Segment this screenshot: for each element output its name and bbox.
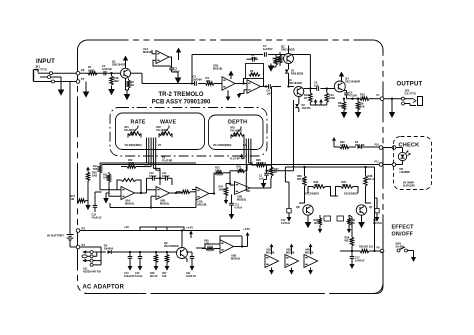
wire supply to U4 xyxy=(196,247,205,249)
wire U2A feedback loop xyxy=(117,180,121,190)
svg-text:1S2473: 1S2473 xyxy=(302,106,311,110)
svg-text:1K: 1K xyxy=(131,83,134,87)
wire U1B output xyxy=(235,83,247,85)
PCB assembly boundary (dash-dot border) xyxy=(78,40,384,294)
svg-text:47u/6.3V: 47u/6.3V xyxy=(92,216,102,219)
svg-text:P11: P11 xyxy=(375,161,380,164)
wire input sleeve to P7 xyxy=(55,81,77,83)
svg-text:ON/OFF: ON/OFF xyxy=(392,232,414,238)
node P3 pad xyxy=(76,229,80,233)
svg-text:4.7K: 4.7K xyxy=(204,242,209,245)
svg-text:100K: 100K xyxy=(338,104,344,108)
svg-text:WZ-4702: WZ-4702 xyxy=(256,162,267,165)
wire x293 vertical xyxy=(293,100,295,167)
capacitor C9 47uF16V xyxy=(344,92,349,94)
node check pad 4 xyxy=(392,163,396,167)
resistor R40 xyxy=(348,215,350,218)
svg-text:100K: 100K xyxy=(219,188,225,191)
svg-text:WZ-33: WZ-33 xyxy=(368,177,376,181)
resistor R49 1M xyxy=(111,73,113,76)
resistor R27 vca xyxy=(271,165,273,168)
diode D1 RD9.8M xyxy=(285,70,289,74)
svg-text:FLAT-8P: FLAT-8P xyxy=(230,158,240,161)
svg-text:10K1: 10K1 xyxy=(88,68,95,72)
svg-text:M5218L: M5218L xyxy=(125,201,135,205)
resistor R25b xyxy=(238,169,245,172)
capacitor C12 xyxy=(288,182,290,209)
wire pad2 to LED xyxy=(396,147,403,149)
resistor R52 xyxy=(275,55,277,57)
wire ff to effect xyxy=(351,217,353,228)
capacitor C7 1uF50V xyxy=(264,52,266,57)
wire U1A feedback xyxy=(169,57,172,66)
resistor R44 xyxy=(309,93,312,103)
svg-text:Q7: Q7 xyxy=(369,205,373,209)
wire C10 C11 bus xyxy=(146,178,148,193)
wire R10 to pad xyxy=(369,98,380,100)
node output pad xyxy=(380,97,384,101)
svg-text:100K: 100K xyxy=(314,183,320,187)
svg-text:EFFECT: EFFECT xyxy=(392,225,415,231)
wire output ground branch xyxy=(391,99,393,112)
wire Q2 source xyxy=(288,64,290,70)
wire Q1 drain up xyxy=(125,62,127,68)
svg-text:+4.5V: +4.5V xyxy=(186,226,193,230)
wire D1 to Q3 xyxy=(288,73,290,86)
jumper pads ff xyxy=(324,216,331,221)
svg-text:WZ-10: WZ-10 xyxy=(345,238,353,242)
svg-text:RD9.8M: RD9.8M xyxy=(355,143,364,147)
arrow up loop a xyxy=(315,101,317,103)
wire C9 to output pad xyxy=(347,98,361,100)
wire D9 to Q9 xyxy=(111,251,176,253)
wire pot bundle 1 xyxy=(146,138,148,164)
battery BT1 xyxy=(69,232,71,235)
resistor R15 vertical xyxy=(108,172,110,174)
node effect pad xyxy=(380,249,384,253)
wire long LED return xyxy=(102,164,380,166)
resistor R2 at Q1 source xyxy=(127,80,130,88)
capacitor C13 ff xyxy=(376,198,378,209)
svg-text:10K2: 10K2 xyxy=(215,169,222,172)
svg-text:1uF50V: 1uF50V xyxy=(263,47,273,51)
resistor R4 10K xyxy=(206,82,215,85)
ground mid ff b xyxy=(348,228,350,230)
wire main to C3 xyxy=(192,83,194,85)
svg-text:1K: 1K xyxy=(274,171,277,174)
svg-text:Q8: Q8 xyxy=(296,205,300,209)
wire sleeve branch down xyxy=(69,82,71,233)
resistor R9 to ground xyxy=(357,99,359,102)
ground under C12 xyxy=(288,216,290,218)
svg-text:2SK118GR: 2SK118GR xyxy=(281,48,295,52)
svg-text:0.047uF: 0.047uF xyxy=(373,222,383,225)
wire VCA branch down xyxy=(271,90,273,170)
svg-text:1.2K: 1.2K xyxy=(237,168,242,171)
capacitor C11 xyxy=(165,176,167,181)
ground mid ff a xyxy=(319,228,321,230)
svg-text:2SC2458GR: 2SC2458GR xyxy=(345,80,360,84)
transistor Q3 2SK184GR xyxy=(294,87,304,97)
capacitor C2 47uF xyxy=(171,66,173,68)
svg-text:2SC2458GR: 2SC2458GR xyxy=(305,193,319,196)
svg-text:10K: 10K xyxy=(360,104,365,108)
svg-text:0.047uF: 0.047uF xyxy=(102,67,112,71)
wire lfo to ff link xyxy=(273,170,294,172)
power arrow Q4 xyxy=(341,77,343,79)
resistor R31 1.2K xyxy=(340,145,349,148)
power arrow at Q1 xyxy=(125,61,127,64)
wire D4 to pad xyxy=(361,146,379,148)
capacitor C3 1uF50V xyxy=(194,81,196,86)
svg-text:M5218L: M5218L xyxy=(286,251,296,254)
svg-text:2SC2458GR: 2SC2458GR xyxy=(344,193,358,196)
arrow up depth line xyxy=(241,156,243,158)
svg-text:FLAT-8P: FLAT-8P xyxy=(162,158,173,162)
arrow down U1B bias xyxy=(227,95,229,98)
resistor R8 to ground xyxy=(343,99,345,102)
svg-text:WZ-10: WZ-10 xyxy=(150,275,158,278)
wire R31 to D4 xyxy=(349,146,356,148)
wire P7 branch ground xyxy=(85,82,87,89)
transistor Q8 2SC2458 xyxy=(303,205,313,215)
capacitor C1 0.047uF xyxy=(103,71,105,76)
resistor R28 xyxy=(360,249,369,252)
svg-text:M5218L: M5218L xyxy=(160,201,170,205)
ground at Q1 source xyxy=(126,91,128,95)
wire pad down border xyxy=(381,251,383,253)
ground R47 xyxy=(166,265,168,267)
resistor R47 xyxy=(166,252,168,255)
svg-text:M5218L: M5218L xyxy=(198,202,208,206)
svg-text:10K: 10K xyxy=(206,79,211,83)
wire Q9 collector xyxy=(181,231,183,248)
ground at R49 xyxy=(111,86,113,90)
svg-text:10K: 10K xyxy=(351,222,356,225)
svg-text:RATE: RATE xyxy=(131,120,146,126)
svg-text:2.2K: 2.2K xyxy=(340,143,346,147)
svg-text:GA-777G: GA-777G xyxy=(405,92,417,96)
wire LFO bottom rail xyxy=(110,207,196,209)
wire Q3 out xyxy=(304,88,309,90)
svg-text:0.01uF: 0.01uF xyxy=(135,275,143,278)
svg-text:WZ-33: WZ-33 xyxy=(297,177,305,181)
capacitor C21 47uF xyxy=(191,252,193,256)
wire bottom border solid d xyxy=(331,293,376,295)
resistor R20 left xyxy=(87,169,89,171)
resistor R35 vertical xyxy=(304,167,306,176)
ground under C13 xyxy=(376,216,378,218)
node P4 pad xyxy=(76,245,80,249)
power arrow check xyxy=(333,140,335,142)
capacitor C14 vca xyxy=(266,171,268,173)
wire bottom border solid b xyxy=(158,293,229,295)
wire bottom border solid a xyxy=(85,293,140,295)
svg-text:100: 100 xyxy=(360,95,365,99)
svg-text:VR-100KB(M22): VR-100KB(M22) xyxy=(213,144,231,147)
wire Q4 emitter xyxy=(344,90,347,92)
diode D4 RD9.8M zener xyxy=(358,145,362,149)
wire P4 to AD jack loop xyxy=(80,246,101,248)
resistor R13 left xyxy=(78,199,86,202)
wire check pads top xyxy=(383,147,392,149)
ground C15 xyxy=(139,265,141,267)
resistor R18 xyxy=(181,190,190,193)
control panel outer box (dashed) xyxy=(110,108,267,157)
svg-text:0.47uF: 0.47uF xyxy=(235,206,243,209)
wire R44 R45 bottom loop xyxy=(309,102,311,105)
svg-text:10K: 10K xyxy=(162,275,167,278)
ground C21 xyxy=(191,265,193,267)
wire D2 down xyxy=(298,108,300,112)
wire ff base components xyxy=(319,215,321,218)
wire C7 to R52 xyxy=(268,54,310,56)
resistor R10 xyxy=(360,97,369,100)
resistor R48 xyxy=(206,247,214,250)
svg-text:1K: 1K xyxy=(304,96,307,100)
transistor Q1 2SK184GR xyxy=(121,68,131,78)
svg-text:47K: 47K xyxy=(250,72,255,76)
node check pad 3 xyxy=(379,163,383,167)
svg-text:WAVE: WAVE xyxy=(160,120,176,126)
wire pot bundle 2 xyxy=(243,139,245,159)
resistor R22 47K xyxy=(127,165,136,168)
wire switch to ground xyxy=(408,250,414,252)
wire U2 out to Q3 stage xyxy=(261,86,268,88)
ground C16 lfo xyxy=(231,213,233,215)
capacitor C15 xyxy=(139,252,141,256)
svg-text:0.68uF: 0.68uF xyxy=(149,175,157,178)
wire depth bundle join xyxy=(242,158,244,160)
svg-text:R28 WZ-152: R28 WZ-152 xyxy=(359,246,374,249)
svg-text:1M: 1M xyxy=(71,198,74,201)
wire U3A out xyxy=(209,193,214,195)
wire R30 to switch line xyxy=(351,246,353,251)
wire U4 out xyxy=(242,246,248,248)
wire input ring down to ground xyxy=(60,77,62,86)
svg-text:1uF50V: 1uF50V xyxy=(193,78,203,82)
ground LFO left xyxy=(105,197,107,199)
wire battery to pad P4 xyxy=(70,246,76,248)
wire effect return down border xyxy=(382,253,384,286)
wire P3 rail xyxy=(80,230,240,232)
transistor Q9 2SC2458GR xyxy=(177,248,188,259)
wire ff rail right down xyxy=(374,167,376,251)
svg-text:M5218L: M5218L xyxy=(237,197,247,201)
svg-text:AC ADAPTOR: AC ADAPTOR xyxy=(83,285,125,291)
op-amp U4 half xyxy=(220,240,234,254)
node check pad 1 xyxy=(379,146,383,150)
diode D9 xyxy=(108,250,112,254)
svg-text:HD228-04R-750: HD228-04R-750 xyxy=(83,270,101,273)
resistor R36 100K xyxy=(313,185,325,188)
transistor Q4 2SC2458GR xyxy=(334,81,345,92)
node check pad 2 xyxy=(392,146,396,150)
svg-text:9V BATTERY: 9V BATTERY xyxy=(47,234,64,238)
svg-text:47K2: 47K2 xyxy=(128,162,135,165)
capacitor C6 xyxy=(316,86,318,91)
svg-text:1uF: 1uF xyxy=(314,83,319,87)
svg-text:0.047uF: 0.047uF xyxy=(355,258,365,262)
wire LFO top rail xyxy=(100,162,196,164)
svg-text:100u/16V: 100u/16V xyxy=(124,275,135,278)
ground at R8 xyxy=(343,110,345,112)
capacitor C14 100uF xyxy=(129,252,131,256)
svg-text:TR-2 TREMOLO: TR-2 TREMOLO xyxy=(159,92,204,98)
transistor Q2 2SK118GR xyxy=(284,54,294,64)
capacitor C5 in feedback xyxy=(252,57,254,62)
resistor R5 47K in feedback xyxy=(249,73,260,76)
node input bias junction xyxy=(110,72,112,74)
depth box xyxy=(209,115,264,150)
wire vref rail horizontal xyxy=(192,54,263,56)
arrow up loop b xyxy=(320,101,322,103)
wire bottom border solid c xyxy=(239,293,294,295)
svg-text:P6: P6 xyxy=(81,68,85,72)
resistor R46 xyxy=(155,252,157,255)
svg-text:120K: 120K xyxy=(329,96,335,100)
wire C8 right xyxy=(272,86,281,88)
svg-text:DEPTH: DEPTH xyxy=(228,120,247,126)
feedback U4 xyxy=(220,236,225,243)
svg-text:1M2: 1M2 xyxy=(92,173,98,177)
svg-text:56K: 56K xyxy=(93,168,98,171)
op-amp U2A M5218L xyxy=(121,187,135,200)
resistor R30 vertical xyxy=(351,228,353,237)
capacitor C17 xyxy=(350,256,355,258)
ground at C2 xyxy=(177,76,179,78)
ground at P7 branch xyxy=(85,88,87,92)
ground Q8 xyxy=(307,221,309,223)
wire check pads bottom xyxy=(383,164,392,166)
capacitor C16 lfo xyxy=(231,195,233,204)
capacitor C8 xyxy=(268,84,270,89)
wire Q9 emitter xyxy=(185,257,188,259)
LED D8 LN28RP xyxy=(398,152,406,160)
power arrow U1A xyxy=(178,53,180,55)
svg-text:1uF: 1uF xyxy=(267,91,272,95)
svg-text:+9V: +9V xyxy=(124,225,129,229)
svg-text:P10: P10 xyxy=(375,144,380,147)
wire Q1 to main path xyxy=(131,72,143,74)
wire to U3B xyxy=(229,171,231,185)
svg-text:10K: 10K xyxy=(314,222,319,225)
resistor R37 100K xyxy=(341,185,353,188)
wire pad to output jack xyxy=(384,98,402,100)
wire LED to pad4 xyxy=(402,161,404,165)
wire R4 to U1B xyxy=(214,83,222,85)
arrow bias U2 xyxy=(238,93,240,96)
wire ff right node xyxy=(375,197,378,199)
resistor R23 xyxy=(215,171,223,174)
svg-text:100P: 100P xyxy=(251,56,257,60)
svg-text:PCB ASSY 70901390: PCB ASSY 70901390 xyxy=(152,100,211,106)
wire U3B out xyxy=(250,187,271,189)
ground vca xyxy=(264,179,267,181)
svg-text:1M: 1M xyxy=(273,59,277,63)
wire vref rail vertical xyxy=(191,55,193,84)
ground at output jack xyxy=(391,111,393,113)
wire Q1 source down xyxy=(125,78,127,90)
resistor R7 xyxy=(279,52,281,54)
wire U1B to LFO sense xyxy=(227,90,229,96)
ground R46 xyxy=(155,265,157,267)
svg-text:M5218L: M5218L xyxy=(266,251,276,254)
svg-text:2SC2458GR: 2SC2458GR xyxy=(164,244,179,248)
svg-text:OUTPUT: OUTPUT xyxy=(397,82,423,88)
rate wave box xyxy=(116,113,205,150)
ground at input ring xyxy=(60,86,62,90)
input jack JK1 xyxy=(33,70,35,82)
node main junction A xyxy=(191,82,193,84)
wire P6 to Q1 stage xyxy=(80,72,120,74)
node P7 pad xyxy=(76,80,80,84)
power arrow 4.5b xyxy=(247,235,249,237)
wire R28 to pad xyxy=(369,250,380,252)
op-amp U3A M5218L xyxy=(196,187,209,200)
power rail box xyxy=(140,227,184,231)
svg-text:6LR61(P): 6LR61(P) xyxy=(403,184,415,188)
ground C14 xyxy=(129,265,131,267)
wire C6 to R44 loop xyxy=(304,88,317,90)
resistor R38 vertical xyxy=(365,167,367,176)
capacitor C10 xyxy=(152,176,154,181)
svg-text:M5218L: M5218L xyxy=(231,256,241,260)
ground at C17 xyxy=(351,263,353,265)
resistor R45 xyxy=(326,89,328,93)
ground Q7 xyxy=(361,221,363,223)
wire Q2 top xyxy=(288,46,290,54)
svg-text:LN28RP: LN28RP xyxy=(400,170,411,174)
diode D2 1S2473 xyxy=(298,97,300,105)
svg-text:1M2: 1M2 xyxy=(114,79,120,83)
svg-text:0.047uF: 0.047uF xyxy=(281,222,291,225)
svg-text:M5218L: M5218L xyxy=(305,251,315,254)
op-amp U2 stage 2 xyxy=(247,80,261,94)
power arrow U1B xyxy=(230,76,232,78)
capacitor C22 left xyxy=(94,192,96,206)
ground at SW1 xyxy=(413,256,415,258)
svg-text:100K: 100K xyxy=(103,176,109,179)
svg-text:P4: P4 xyxy=(82,243,86,247)
svg-text:100K: 100K xyxy=(342,183,348,187)
feedback loop box U2 xyxy=(244,79,246,84)
svg-text:47/16V: 47/16V xyxy=(349,93,357,97)
ground LFO right xyxy=(225,199,227,201)
ground at R52 xyxy=(270,64,272,66)
svg-text:0.68uF: 0.68uF xyxy=(162,175,170,178)
wire U2A wiring xyxy=(100,178,121,190)
power arrow 4.5a xyxy=(190,233,192,235)
svg-text:2SK184GR: 2SK184GR xyxy=(288,81,302,85)
wire VCA vertical xyxy=(266,165,268,171)
svg-text:TM-100KB: TM-100KB xyxy=(230,129,242,132)
wire U2B wiring xyxy=(147,189,157,191)
svg-text:VR-50KB(M22): VR-50KB(M22) xyxy=(125,144,142,147)
ground at R9 xyxy=(357,110,359,112)
wire input tip to pad P6 xyxy=(53,72,77,74)
svg-text:+4.5V: +4.5V xyxy=(243,227,250,231)
wire ff emitters xyxy=(307,215,309,222)
node P6 pad xyxy=(76,71,80,75)
wire C3 to R4 xyxy=(198,83,205,85)
wire U3A wiring xyxy=(195,190,197,192)
svg-text:RD9.8EB2: RD9.8EB2 xyxy=(291,71,304,75)
svg-text:P7: P7 xyxy=(81,77,85,81)
svg-text:P3: P3 xyxy=(82,227,86,231)
battery check box (dashed) xyxy=(394,137,432,190)
output jack JK2 xyxy=(402,97,405,100)
